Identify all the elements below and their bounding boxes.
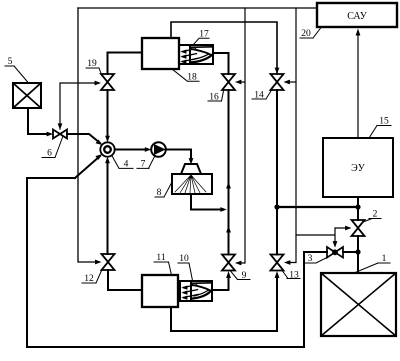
valve V3 with ball bbox=[327, 247, 343, 258]
block evaporator 18 bbox=[142, 38, 179, 69]
wire diagonal to node 4 bbox=[75, 156, 100, 178]
block U15 EU box bbox=[323, 138, 393, 197]
valve V2 bbox=[352, 220, 365, 236]
label 12 bbox=[82, 270, 102, 285]
pipe EU down to tank bbox=[357, 197, 359, 273]
valve V6 bbox=[53, 130, 67, 139]
arrow into valve 6 left bbox=[47, 132, 53, 137]
valve V19 bbox=[101, 74, 114, 90]
arrow into valve 2 left bbox=[345, 226, 351, 231]
svg-text:4: 4 bbox=[124, 160, 129, 170]
pipe valve3 right to tank line bbox=[343, 251, 358, 253]
svg-text:10: 10 bbox=[179, 254, 189, 264]
svg-text:5: 5 bbox=[8, 57, 13, 67]
svg-text:1: 1 bbox=[382, 254, 387, 264]
svg-text:6: 6 bbox=[47, 149, 52, 159]
fan unit 10 bbox=[180, 281, 212, 301]
pipe trunk x=277 valves 13-14 bbox=[276, 90, 278, 255]
wire control trunk x=245 bbox=[240, 8, 245, 263]
arrow into node from return bbox=[95, 154, 102, 160]
arrow into valve 12 bbox=[95, 260, 102, 265]
label 3 bbox=[304, 254, 327, 264]
pipe valve16 to box 17 bbox=[213, 53, 229, 74]
wire left control trunk x=78 bbox=[78, 8, 96, 262]
label 5 bbox=[5, 57, 29, 83]
arrow into valve 16 right bbox=[235, 80, 241, 85]
arrow into node bottom bbox=[105, 157, 110, 163]
arrow into riser bbox=[220, 207, 226, 212]
label 14 bbox=[252, 91, 271, 101]
arrow into sprayer top bbox=[189, 158, 194, 164]
arrow into pump inlet bbox=[145, 147, 151, 152]
fan 10 spray arrows bbox=[184, 285, 199, 298]
wire y=22 line to box 18 bbox=[171, 22, 277, 73]
pipe cross link at y=207 bbox=[277, 206, 358, 208]
node 4 mixer bbox=[100, 142, 114, 156]
svg-text:18: 18 bbox=[187, 73, 197, 83]
svg-text:13: 13 bbox=[289, 271, 299, 281]
svg-text:9: 9 bbox=[242, 271, 247, 281]
valve V13 bbox=[271, 255, 284, 271]
wire top control line bbox=[78, 7, 317, 9]
node junction dot left bbox=[274, 204, 279, 209]
svg-text:3: 3 bbox=[308, 254, 313, 264]
pump 7 bbox=[151, 142, 166, 157]
valve V14 bbox=[271, 74, 284, 90]
valve V16 bbox=[222, 74, 235, 90]
label 15 bbox=[369, 117, 391, 139]
pipe node to pump bbox=[115, 149, 146, 151]
arrow into SAU bottom bbox=[356, 29, 361, 36]
arrow into valve 9 right bbox=[235, 261, 241, 266]
label 20 bbox=[300, 28, 321, 40]
wire EU to SAU signal bbox=[357, 33, 359, 138]
label 17 bbox=[193, 30, 209, 46]
arrow up on riser upper bbox=[226, 182, 231, 189]
svg-text:15: 15 bbox=[379, 117, 389, 127]
valve V12 bbox=[102, 254, 115, 270]
arrow into valve 13 right bbox=[284, 260, 290, 265]
svg-text:ЭУ: ЭУ bbox=[351, 163, 366, 174]
pipe box5 to valve 6 bbox=[28, 108, 47, 134]
label 4 bbox=[112, 156, 133, 170]
label 9 bbox=[231, 271, 251, 281]
arrow up on riser lower bbox=[226, 226, 231, 233]
arrow into valve 14 right bbox=[284, 80, 290, 85]
arrow into valve 9 bottom bbox=[226, 271, 231, 278]
block humidifier 8 bbox=[172, 174, 212, 194]
label 6 bbox=[42, 137, 63, 159]
wire branch to valves 2 and 3 bbox=[296, 228, 346, 246]
label 8 bbox=[155, 182, 172, 198]
pipe valve12 to box 11 bbox=[108, 270, 142, 290]
svg-text:САУ: САУ bbox=[347, 11, 368, 22]
sprayer nozzle trapezoid bbox=[181, 164, 201, 174]
svg-text:16: 16 bbox=[209, 93, 219, 103]
block tank 1 bbox=[321, 273, 396, 336]
arrow into valve 3 top bbox=[333, 241, 338, 247]
wire control trunk x=296 bbox=[289, 8, 296, 263]
label 11 bbox=[154, 253, 172, 275]
arrow into node from valve6 bbox=[96, 140, 103, 146]
svg-text:14: 14 bbox=[254, 91, 264, 101]
arrow into valve 14 top bbox=[275, 68, 280, 74]
arrow into node top bbox=[105, 136, 110, 142]
label 18 bbox=[172, 69, 199, 83]
arrow into valve 13 bottom bbox=[275, 271, 280, 278]
label 7 bbox=[137, 157, 155, 170]
block filter 5 bbox=[13, 83, 41, 108]
svg-text:2: 2 bbox=[373, 210, 378, 220]
label 16 bbox=[208, 91, 224, 103]
svg-text:12: 12 bbox=[84, 274, 94, 284]
pipe box10 out to valve 9 bbox=[212, 275, 229, 290]
svg-text:17: 17 bbox=[199, 30, 209, 40]
fan 17 spray arrows bbox=[183, 49, 198, 62]
pipe valve3 left return loop bbox=[27, 178, 327, 347]
pipe node to valve 12 bbox=[107, 161, 109, 254]
valve V9 bbox=[222, 255, 235, 271]
label 13 bbox=[283, 271, 301, 281]
node junction dot valve3 tee bbox=[355, 249, 360, 254]
svg-text:11: 11 bbox=[156, 253, 165, 263]
pipe box8 out to riser bbox=[191, 194, 221, 210]
spray lines inside box 8 bbox=[175, 175, 206, 193]
node junction dot right bbox=[355, 204, 360, 209]
fan 10 horn bbox=[192, 282, 212, 285]
svg-text:8: 8 bbox=[157, 188, 162, 198]
svg-text:20: 20 bbox=[301, 29, 311, 39]
pipe box18 left to valve 19 bbox=[108, 53, 143, 75]
label 1 bbox=[354, 254, 390, 273]
pipe bottom loop box11 to valve 13 bbox=[171, 275, 277, 331]
label 19 bbox=[86, 59, 102, 75]
block U20 SAU box bbox=[317, 3, 397, 27]
wire branch to valve 14 bbox=[289, 81, 296, 83]
fan unit 17 bbox=[179, 45, 213, 64]
arrow into valve 6 top bbox=[58, 123, 63, 129]
pipe valve6 to node 4 bbox=[67, 134, 100, 143]
label 2 bbox=[365, 210, 382, 222]
wire branch to valve 16 bbox=[240, 81, 245, 83]
fan 17 horn bbox=[191, 46, 213, 49]
wire control branch to valves 6 and 19 bbox=[60, 83, 96, 129]
svg-text:7: 7 bbox=[141, 160, 146, 170]
svg-text:19: 19 bbox=[87, 59, 97, 69]
pipe valve19 to node 4 bbox=[107, 90, 109, 138]
arrow into valve 19 bbox=[95, 81, 101, 86]
label 10 bbox=[178, 254, 193, 281]
block evaporator 11 bbox=[142, 275, 178, 307]
pipe riser x=228.5 bbox=[228, 90, 230, 255]
pipe pump to sprayer bbox=[166, 150, 191, 160]
